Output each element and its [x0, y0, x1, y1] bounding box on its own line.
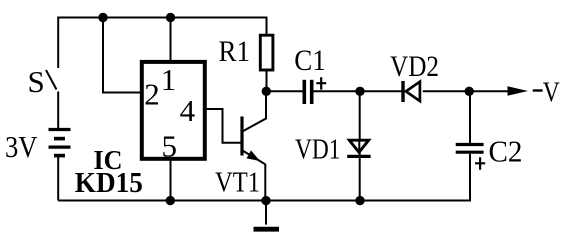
svg-text:VD1: VD1 [295, 134, 341, 165]
svg-text:5: 5 [162, 129, 178, 164]
svg-text:VT1: VT1 [215, 166, 260, 198]
svg-text:C2: C2 [489, 133, 523, 168]
svg-text:C1: C1 [294, 44, 326, 77]
svg-text:KD15: KD15 [75, 168, 143, 199]
svg-text:3V: 3V [5, 129, 38, 164]
svg-text:R1: R1 [219, 35, 251, 68]
svg-text:V: V [543, 77, 560, 108]
svg-text:S: S [28, 64, 45, 99]
svg-text:4: 4 [180, 93, 196, 128]
svg-text:VD2: VD2 [390, 50, 439, 83]
svg-text:2: 2 [144, 77, 160, 112]
svg-text:1: 1 [161, 62, 177, 97]
